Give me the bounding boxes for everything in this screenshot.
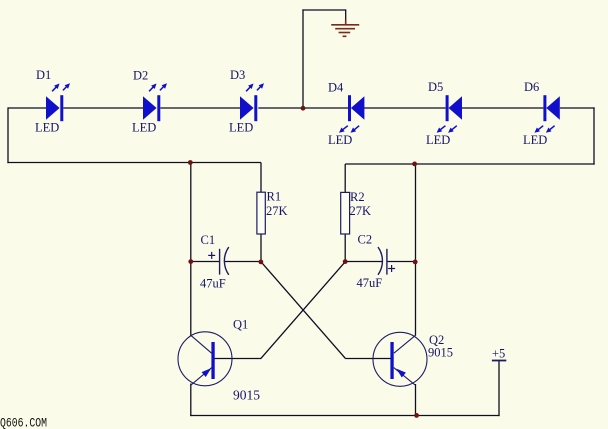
svg-text:Q1: Q1 [233, 318, 248, 332]
svg-text:9015: 9015 [233, 388, 260, 403]
wire R2 bottom stem [344, 234, 346, 262]
svg-text:LED: LED [35, 121, 59, 135]
wire ground stem [345, 9, 347, 21]
svg-text:LED: LED [132, 121, 156, 135]
junction C1 left [188, 259, 193, 264]
power +5 bar [492, 360, 506, 362]
junction C1 right / R1 bottom [259, 260, 264, 265]
wire ground riser [302, 9, 304, 108]
wire Q2 emitter vertical [415, 384, 417, 416]
svg-text:R2: R2 [350, 190, 365, 204]
junction left rail / C1 branch [188, 160, 193, 165]
svg-text:Q606.COM: Q606.COM [0, 416, 47, 429]
svg-text:C1: C1 [201, 233, 216, 247]
wire cross-coupling diagonal R2/C2 to Q1 base [261, 262, 345, 359]
LED D5 [437, 95, 462, 133]
wire Q1 base lead [214, 358, 261, 360]
wire Q2 base lead [345, 358, 391, 360]
svg-text:27K: 27K [350, 204, 372, 218]
plus sign C2 [388, 265, 395, 272]
svg-text:LED: LED [523, 133, 547, 147]
plus sign C1 [208, 252, 215, 259]
LED D4 [339, 95, 364, 133]
svg-text:LED: LED [328, 133, 352, 147]
junction C2 right [413, 260, 418, 265]
resistor R1 [257, 192, 265, 234]
svg-text:LED: LED [229, 121, 253, 135]
svg-text:R1: R1 [267, 190, 282, 204]
wire LED row segment 6 [462, 107, 544, 109]
svg-text:C2: C2 [358, 233, 373, 247]
LED D6 [534, 95, 559, 133]
wire left rail [7, 162, 261, 164]
svg-text:D6: D6 [524, 80, 539, 94]
svg-text:D2: D2 [133, 69, 148, 83]
wire ground top horizontal [302, 9, 346, 11]
wire +5 lead [498, 361, 500, 417]
capacitor C2 [378, 247, 387, 275]
wire left branch vertical (C1/Q1 collector) [190, 163, 192, 336]
wire C1 left lead [191, 261, 220, 263]
svg-text:9015: 9015 [428, 346, 453, 360]
ground [331, 20, 359, 37]
LED D2 [143, 83, 167, 121]
LED D1 [46, 83, 70, 121]
svg-text:+5: +5 [492, 347, 505, 361]
capacitor C1 [220, 247, 229, 275]
wire R1 top stem [260, 163, 262, 193]
wire LED row segment 2 [63, 107, 143, 109]
svg-text:47uF: 47uF [357, 276, 383, 290]
wire right vertical [593, 107, 595, 164]
svg-text:LED: LED [426, 133, 450, 147]
svg-text:D1: D1 [36, 68, 51, 82]
wire LED row segment 4 [258, 107, 348, 109]
resistor R2 [341, 192, 350, 234]
wire LED row segment 3 [160, 107, 240, 109]
junction C2 left / R2 bottom [343, 259, 348, 264]
svg-text:27K: 27K [266, 204, 288, 218]
wire right branch vertical (C2/Q2 collector) [415, 164, 417, 336]
wire bottom rail [190, 415, 499, 417]
wire LED row segment 1 [8, 107, 46, 109]
junction LED row / ground [301, 106, 306, 111]
wire R1 bottom stem [260, 234, 262, 262]
wire LED row segment 5 [364, 107, 446, 109]
wire left vertical [7, 107, 9, 163]
wire C2 left lead [345, 261, 382, 263]
wire Q1 emitter vertical [190, 384, 192, 417]
wire cross-coupling diagonal R1/C1 to Q2 base [261, 262, 346, 359]
wire right rail [345, 163, 594, 165]
wire C1 right lead [224, 261, 261, 263]
transistor Q1 [178, 332, 232, 386]
junction right rail / C2 branch [412, 162, 417, 167]
wire C2 right lead [387, 261, 416, 263]
svg-text:D4: D4 [328, 81, 344, 95]
svg-text:D5: D5 [428, 80, 443, 94]
LED D3 [240, 83, 264, 121]
wire R2 top stem [344, 164, 346, 193]
svg-text:47uF: 47uF [200, 277, 226, 291]
svg-text:D3: D3 [230, 68, 245, 82]
junction bottom rail / Q2 emitter [414, 413, 419, 418]
transistor Q2 [373, 332, 427, 386]
wire LED row segment 7 [560, 107, 595, 109]
